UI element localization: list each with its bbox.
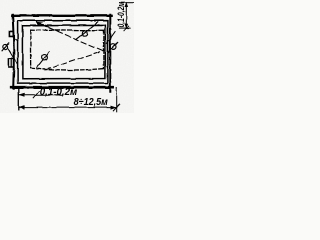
outer panel frame: bottom edge	[11, 86, 112, 89]
dimension line 1 (0,1-0,2m)	[18, 94, 62, 96]
middle panel frame	[18, 20, 108, 83]
svg-text:8÷12,5м: 8÷12,5м	[74, 96, 109, 108]
right dimension: lower extension line	[119, 27, 130, 29]
upper tab on left edge	[9, 31, 13, 36]
small phi left outside	[3, 44, 8, 49]
right dimension: top extension line	[121, 1, 134, 3]
right extension line of dimension 2	[115, 88, 117, 112]
outer panel frame: top edge	[12, 14, 111, 16]
inner panel frame	[22, 25, 105, 79]
diagonal B dashed	[45, 50, 104, 69]
diagonal A dashed part	[58, 31, 105, 51]
dashed rectangle: shifted panel position, top edge	[30, 29, 103, 32]
svg-text:0,1-0,2м: 0,1-0,2м	[116, 2, 126, 28]
outer panel frame: right edge	[109, 14, 111, 91]
lower tab on left edge	[8, 58, 13, 67]
slash tick at right dimension bottom	[124, 26, 129, 31]
leader from left phi to lower tab	[8, 49, 16, 63]
phi label at right edge with slash	[110, 44, 115, 49]
diagonal A solid lead-in	[37, 22, 57, 31]
slash tick at right end of dimension 2	[113, 104, 119, 111]
svg-text:0,1-0,2м: 0,1-0,2м	[40, 87, 77, 98]
right dimension line	[125, 2, 127, 28]
small tick below upper tab	[15, 38, 18, 40]
dashed rectangle: bottom edge	[31, 68, 104, 70]
arrowhead of diagonal A	[35, 21, 42, 26]
arrows of dimension 2	[18, 105, 24, 109]
dashed rectangle: right edge	[102, 30, 104, 68]
dashed rectangle: left edge	[29, 30, 31, 68]
slash tick on dimension 1	[33, 91, 39, 98]
bottom-left extension line	[17, 87, 19, 109]
arrow of dimension 1	[18, 93, 24, 97]
leader from right dimension into frame	[106, 32, 114, 44]
right dimension arrows	[125, 2, 129, 7]
phi label near top with leader	[82, 30, 87, 35]
dimension line 2 (8-12,5m)	[18, 106, 116, 108]
outer panel frame: left edge	[13, 14, 14, 88]
phi label lower-left with leader	[41, 54, 47, 60]
